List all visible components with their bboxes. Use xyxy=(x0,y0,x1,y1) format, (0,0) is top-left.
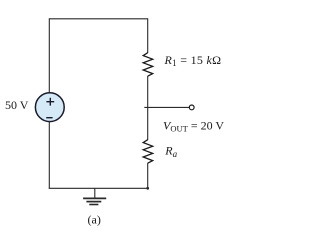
junction: bottom-right corner xyxy=(146,187,149,190)
wire: left vertical upper xyxy=(48,18,50,93)
svg-text:(a): (a) xyxy=(88,213,101,227)
wire: top horizontal xyxy=(49,18,147,20)
wire: bottom horizontal xyxy=(49,187,149,189)
resistor R1 xyxy=(143,53,153,76)
svg-text:50 V: 50 V xyxy=(5,98,29,112)
plus sign of source xyxy=(46,98,54,106)
svg-text:VOUT = 20 V: VOUT = 20 V xyxy=(163,119,224,134)
resistor Ra xyxy=(143,140,153,164)
output terminal xyxy=(189,105,194,110)
svg-text:R1 = 15 kΩ: R1 = 15 kΩ xyxy=(164,53,222,68)
voltage source V1 50V xyxy=(35,93,64,122)
ground xyxy=(83,188,106,204)
minus sign of source xyxy=(46,117,52,119)
wire: left vertical lower xyxy=(48,122,50,189)
wire: right vertical upper xyxy=(147,18,149,53)
svg-text:Ra: Ra xyxy=(164,144,177,160)
wire: right vertical lower xyxy=(147,163,149,189)
wire: output tap horizontal xyxy=(144,106,189,108)
wire: right vertical middle xyxy=(147,76,149,140)
